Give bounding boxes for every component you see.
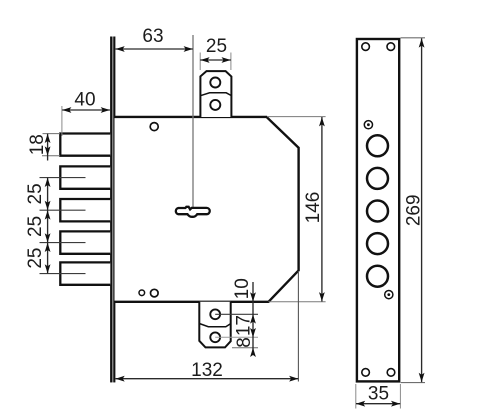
dimension 132 bbox=[116, 360, 299, 382]
svg-text:25: 25 bbox=[25, 183, 46, 204]
top mounting tab bbox=[200, 71, 231, 117]
svg-text:8: 8 bbox=[234, 337, 255, 348]
svg-text:35: 35 bbox=[368, 383, 389, 404]
faceplate bolt hole 2 bbox=[367, 168, 388, 189]
dimension 40 bbox=[62, 90, 110, 137]
extension line hole2 center bbox=[215, 336, 258, 338]
keyhole (double-bitted) bbox=[176, 207, 210, 217]
top tab hole 2 bbox=[210, 100, 220, 110]
faceplate bolt hole 4 bbox=[367, 233, 388, 254]
dimension 63 bbox=[116, 26, 193, 52]
deadbolt 1 bbox=[60, 134, 110, 156]
faceplate bolt hole 3 bbox=[367, 201, 388, 222]
extension line tab bottom bbox=[232, 347, 258, 349]
bottom tab hole 1 bbox=[210, 309, 220, 319]
extension line body top bbox=[267, 116, 326, 118]
deadbolt 4 bbox=[60, 231, 110, 253]
deadbolt centerline ticks bbox=[40, 177, 86, 179]
bottom tab hole 2 bbox=[210, 332, 220, 342]
svg-text:18: 18 bbox=[27, 134, 48, 155]
faceplate bolt hole 1 bbox=[367, 135, 388, 156]
faceplate corner hole BL bbox=[362, 369, 370, 377]
lock body outline bbox=[115, 117, 299, 302]
dimension 8 bbox=[234, 337, 256, 357]
extension line body bottom bbox=[269, 301, 326, 303]
dimension 25 (bolt spacing 2) bbox=[25, 210, 51, 242]
top tab hole 1 bbox=[210, 78, 220, 88]
extension line hole1 center bbox=[215, 313, 258, 315]
faceplate corner hole TL bbox=[362, 43, 370, 51]
svg-text:269: 269 bbox=[404, 194, 425, 226]
svg-text:25: 25 bbox=[206, 36, 227, 57]
cylinder centerline bbox=[192, 35, 194, 207]
extension line plate top bbox=[401, 37, 426, 39]
svg-text:40: 40 bbox=[74, 90, 95, 111]
svg-text:17: 17 bbox=[234, 315, 255, 336]
faceplate bolt hole 5 bbox=[367, 266, 388, 287]
body hole top-left bbox=[150, 123, 158, 131]
faceplate corner hole BR bbox=[387, 369, 395, 377]
svg-text:25: 25 bbox=[25, 248, 46, 269]
dimension 25 (bolt spacing 3) bbox=[25, 243, 51, 274]
svg-text:10: 10 bbox=[232, 278, 253, 299]
dimension 35 bbox=[356, 383, 401, 408]
extension line plate bottom bbox=[401, 382, 425, 384]
body hole bottom small bbox=[139, 290, 145, 296]
faceplate screw hole top bbox=[364, 121, 372, 129]
bottom tab divider bbox=[199, 324, 230, 327]
dimension 17 bbox=[234, 315, 256, 337]
dimension 269 bbox=[404, 38, 425, 382]
faceplate corner hole TR bbox=[387, 43, 395, 51]
dimension 25 (bolt spacing 1) bbox=[25, 178, 51, 211]
backplate side bar bbox=[110, 37, 115, 383]
svg-text:146: 146 bbox=[303, 192, 324, 224]
extension line body right bbox=[297, 271, 299, 382]
striker faceplate bbox=[357, 39, 399, 381]
deadbolt 5 bbox=[60, 262, 110, 284]
deadbolt 3 bbox=[60, 199, 110, 221]
svg-text:132: 132 bbox=[191, 360, 223, 381]
dimension 25 (top tab) bbox=[200, 36, 231, 70]
deadbolt 2 bbox=[60, 166, 110, 188]
bottom mounting tab bbox=[199, 302, 230, 348]
faceplate screw hole bottom bbox=[385, 291, 393, 299]
dimension 146 bbox=[303, 117, 325, 302]
svg-text:25: 25 bbox=[25, 216, 46, 237]
svg-text:63: 63 bbox=[142, 26, 163, 47]
dimension 18 bbox=[27, 134, 60, 161]
dimension 10 bbox=[232, 278, 256, 355]
body hole bottom large bbox=[151, 289, 159, 297]
top tab divider bbox=[200, 93, 231, 96]
